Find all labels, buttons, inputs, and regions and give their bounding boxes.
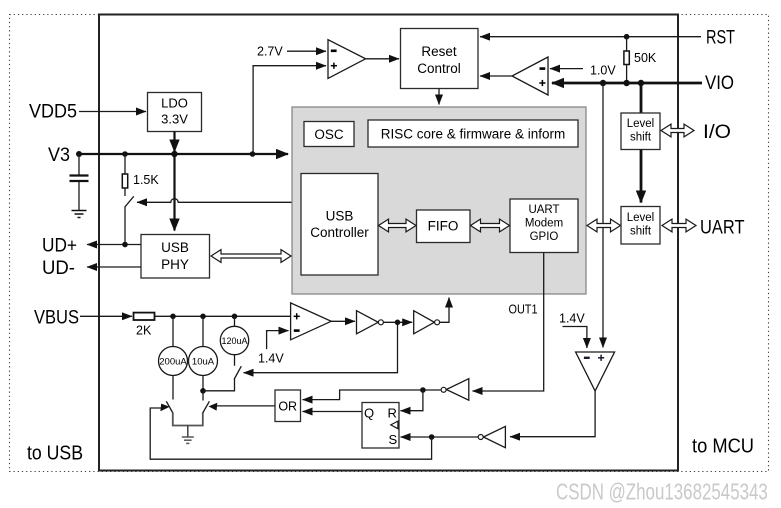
switch S1 pull-up [125,196,134,244]
wire level shift 1 to level shift 2 [640,150,643,203]
wire U3 output to buffer [331,320,355,322]
comparator U3 [291,303,332,340]
svg-text:1.0V: 1.0V [590,64,616,78]
wire VIO net [552,82,702,85]
wire U1 plus from V3 [253,66,326,154]
junction latch node [420,387,426,393]
svg-text:shift: shift [630,132,652,144]
USB PHY block [141,235,210,279]
gray core block [292,107,586,294]
bus USB PHY to USB Controller [211,250,291,263]
junction detector node [395,320,401,326]
resistor 1.5K [122,154,159,196]
wire Reset Control to core [438,89,440,105]
wire S feedback to Q1 base [150,408,431,459]
svg-text:Level: Level [627,118,655,130]
junction VIO at level shift [638,80,644,86]
junction VBUS at 200uA [170,314,176,320]
wire 1.4V to U3 minus [267,331,289,350]
svg-text:S: S [389,432,398,447]
current source 10uA [189,316,218,400]
inverter V2 [414,311,440,334]
capacitor C1 [70,154,89,210]
wire VIO drop to comparator U4 [602,83,604,348]
wire V3 output to latch node [423,389,441,391]
svg-text:3.3V: 3.3V [161,112,188,127]
junction VIO at comparator drop [600,80,606,86]
svg-text:120uA: 120uA [221,336,247,346]
wire Q output to OR input [303,411,363,413]
wire 2.7V to U1 minus [287,50,326,52]
svg-text:RISC core & firmware & inform: RISC core & firmware & inform [381,127,566,142]
RISC core block [368,120,578,147]
wire UD+ [87,244,141,246]
wire LDO output to V3 rail [173,132,175,152]
comparator U4 [576,352,615,391]
junction on V3 at LDO [171,151,177,157]
svg-text:UART: UART [528,204,559,216]
wire emitter to ground [187,426,189,438]
wire V2 output into core [440,298,449,323]
junction RST 50K [624,34,630,40]
svg-text:R: R [388,406,397,421]
ground under Q1 Q2 [182,437,194,443]
wire OR output to Q2 base [217,405,276,407]
node V3 [76,151,82,157]
svg-text:2.7V: 2.7V [257,45,283,59]
svg-text:VDD5: VDD5 [29,102,77,123]
wire U2 output to Reset Control [480,75,512,77]
svg-text:200uA: 200uA [159,357,187,368]
svg-text:LDO: LDO [161,96,188,111]
bus FIFO to UART block [471,219,510,232]
FIFO block [417,210,471,243]
RS latch U10 [362,403,399,449]
svg-text:10uA: 10uA [192,357,215,368]
wire VBUS entry [80,315,132,317]
svg-text:PHY: PHY [161,257,189,272]
svg-text:1.4V: 1.4V [559,312,585,326]
svg-text:Control: Control [417,61,461,76]
svg-text:OSC: OSC [314,127,344,142]
wire VBUS rail [155,315,291,317]
wire latch node to R input [401,390,423,411]
svg-text:Reset: Reset [421,44,457,59]
svg-text:USB: USB [326,209,354,224]
current source 200uA [159,316,188,399]
current source 120uA [220,316,248,366]
bus level shift 1 to I/O [661,124,694,137]
svg-text:to USB: to USB [27,443,83,465]
ground under C1 [72,211,87,218]
level shift U7 [621,113,660,150]
svg-text:Level: Level [627,212,655,224]
svg-text:USB: USB [161,240,189,255]
svg-text:OR: OR [278,400,297,414]
svg-text:shift: shift [630,226,652,238]
resistor 2K [134,313,155,338]
junction VBUS at 120uA [232,314,238,320]
Reset Control U6 [401,29,479,89]
svg-text:FIFO: FIFO [428,219,459,234]
OSC block [304,122,354,147]
svg-text:VIO: VIO [705,73,734,94]
wire 1.0V to U2 minus [550,68,583,70]
junction on V3 at comparator branch [250,151,256,157]
bus UART block to level shift 2 [587,219,621,232]
junction on V3 at 1.5K [122,151,128,157]
wire S2 control from detector [244,322,398,372]
junction VIO at 50K [623,80,629,86]
wire UD- [87,266,141,268]
svg-text:V3: V3 [48,145,70,166]
comparator U2 [512,57,548,95]
wire S1 control with hop over LDO rail [137,199,292,203]
USB Controller block [301,174,378,276]
svg-text:OUT1: OUT1 [509,303,538,317]
chip solid boundary [99,15,678,471]
inverter V4 [478,426,505,447]
wire V3 rail [79,153,288,155]
svg-text:VBUS: VBUS [34,308,79,329]
junction VBUS at 10uA [200,314,206,320]
level shift U8 [621,207,660,245]
junction UD+ pull-up [122,242,128,248]
wire VIO to level shift 1 [640,83,643,113]
transistor Q1 [166,401,203,425]
svg-text:1.5K: 1.5K [133,173,159,187]
wire RST net [480,36,701,38]
inverter V3 feedback [441,379,469,401]
wire OUT1 from GPIO [473,253,544,392]
svg-text:RST: RST [706,28,735,49]
svg-text:50K: 50K [634,51,657,65]
junction 10uA emitter node [200,388,206,394]
comparator U1 [328,40,366,79]
svg-text:UART: UART [700,218,745,239]
svg-text:Modem: Modem [525,218,563,230]
wire LDO rail to USB PHY [173,154,175,231]
OR gate U9 [275,390,301,422]
svg-text:UD-: UD- [42,258,75,279]
wire V4 output to S input [401,436,479,438]
junction S feedback [429,434,435,440]
bus level shift 2 to UART port [662,219,696,232]
svg-text:GPIO: GPIO [530,231,559,243]
transistor Q2 [203,401,210,413]
wire VDD5 to LDO [79,111,146,113]
resistor 50K [624,37,657,83]
svg-text:to MCU: to MCU [692,436,754,458]
svg-text:UD+: UD+ [42,236,77,257]
inverter V1 [357,311,384,334]
UART Modem GPIO block [510,199,578,253]
wire U4 output to inverter V4 [510,391,595,437]
svg-text:1.4V: 1.4V [258,352,284,366]
wire 1.4V to U4 minus [563,327,587,349]
svg-text:Controller: Controller [310,225,369,240]
svg-text:I/O: I/O [703,122,731,143]
svg-text:2K: 2K [136,324,152,338]
wire U1 output to Reset Control [366,58,399,60]
svg-text:Q: Q [364,406,374,421]
switch S2 under 120uA [203,366,241,391]
wire latch node to OR input [303,390,423,400]
wire V1 to V2 [383,321,412,323]
svg-text:CSDN @Zhou13682545343: CSDN @Zhou13682545343 [556,479,768,505]
LDO U5 [148,93,202,132]
bus USB Controller to FIFO [379,219,417,232]
